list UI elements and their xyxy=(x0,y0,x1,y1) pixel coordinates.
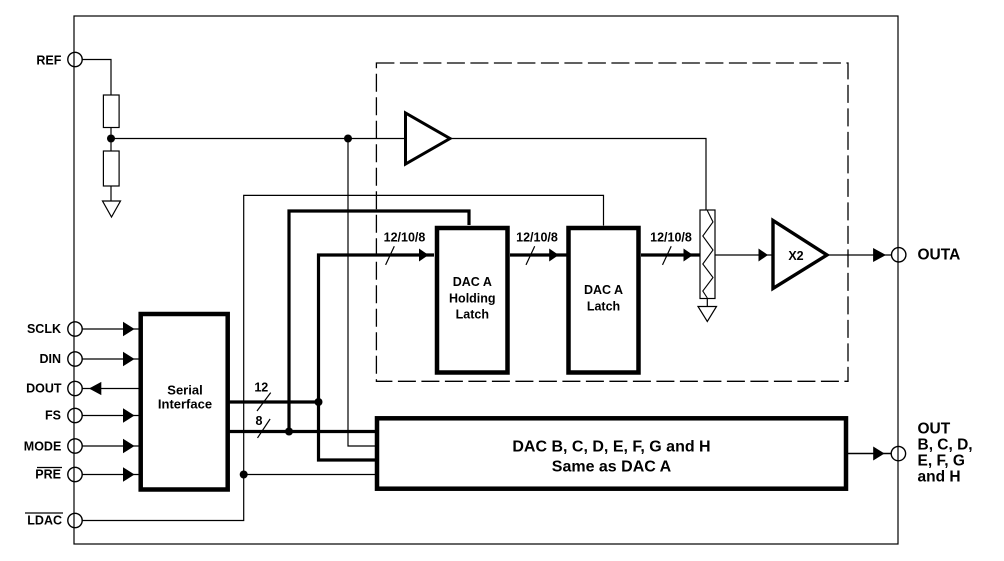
svg-text:DIN: DIN xyxy=(39,352,61,366)
svg-text:FS: FS xyxy=(45,408,61,422)
svg-text:REF: REF xyxy=(36,53,61,67)
svg-text:Latch: Latch xyxy=(587,299,620,313)
svg-text:PRE: PRE xyxy=(35,467,61,481)
svg-text:12: 12 xyxy=(254,381,268,395)
svg-text:and H: and H xyxy=(918,469,961,486)
svg-text:Serial: Serial xyxy=(167,383,202,398)
svg-text:MODE: MODE xyxy=(24,440,62,454)
svg-text:8: 8 xyxy=(256,414,263,428)
svg-text:Latch: Latch xyxy=(456,308,489,322)
svg-text:DAC A: DAC A xyxy=(453,275,492,289)
svg-text:Holding: Holding xyxy=(449,292,496,306)
svg-text:DAC A: DAC A xyxy=(584,283,623,297)
svg-text:OUTA: OUTA xyxy=(918,246,961,263)
svg-text:DOUT: DOUT xyxy=(26,381,62,395)
svg-text:SCLK: SCLK xyxy=(27,322,61,336)
svg-text:12/10/8: 12/10/8 xyxy=(384,231,426,245)
svg-text:LDAC: LDAC xyxy=(27,513,62,527)
svg-text:OUT: OUT xyxy=(918,421,951,438)
svg-text:Same as DAC A: Same as DAC A xyxy=(552,459,672,476)
svg-text:B, C, D,: B, C, D, xyxy=(918,437,973,454)
svg-text:12/10/8: 12/10/8 xyxy=(650,231,692,245)
svg-text:X2: X2 xyxy=(788,249,803,263)
svg-text:Interface: Interface xyxy=(158,397,212,412)
svg-text:12/10/8: 12/10/8 xyxy=(516,231,558,245)
svg-text:E, F, G: E, F, G xyxy=(918,453,965,470)
svg-text:DAC B, C, D, E, F, G and H: DAC B, C, D, E, F, G and H xyxy=(512,438,710,455)
